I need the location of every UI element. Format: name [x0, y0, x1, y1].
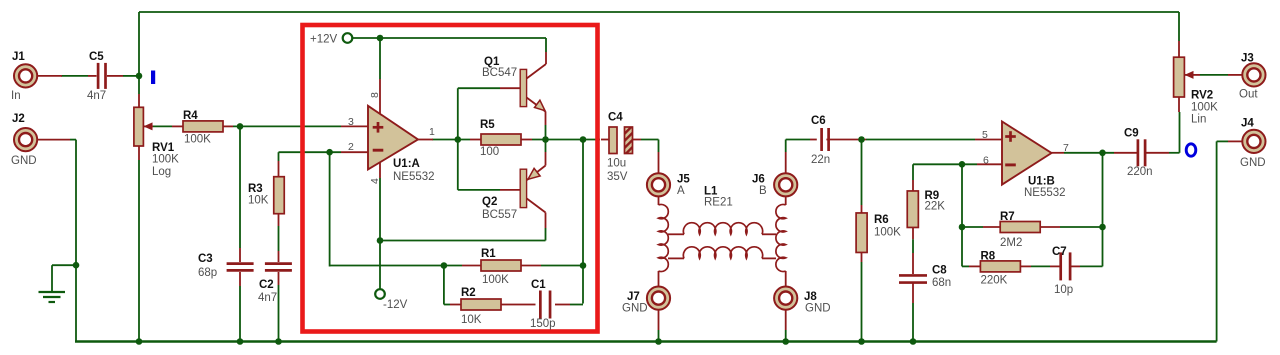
svg-text:100K: 100K — [152, 154, 179, 166]
svg-text:22K: 22K — [925, 201, 946, 213]
svg-text:68n: 68n — [932, 277, 951, 289]
svg-text:C8: C8 — [932, 265, 947, 277]
svg-text:100K: 100K — [874, 227, 901, 239]
svg-text:C7: C7 — [1052, 246, 1067, 258]
svg-text:J2: J2 — [12, 113, 25, 125]
svg-text:Lin: Lin — [1191, 114, 1206, 126]
svg-text:10p: 10p — [1054, 284, 1073, 296]
svg-text:100K: 100K — [1191, 102, 1218, 114]
svg-text:R8: R8 — [981, 251, 996, 263]
svg-text:J7: J7 — [627, 291, 640, 303]
svg-text:4: 4 — [369, 178, 381, 184]
svg-text:C3: C3 — [198, 253, 213, 265]
svg-text:C4: C4 — [608, 112, 623, 124]
svg-text:R5: R5 — [480, 119, 495, 131]
svg-text:220n: 220n — [1127, 166, 1153, 178]
svg-text:R1: R1 — [481, 248, 496, 260]
svg-text:220K: 220K — [981, 275, 1008, 287]
svg-text:U1:B: U1:B — [1028, 176, 1055, 188]
svg-text:+12V: +12V — [310, 34, 338, 46]
svg-text:BC547: BC547 — [482, 67, 517, 79]
svg-text:-12V: -12V — [383, 299, 408, 311]
svg-text:10K: 10K — [248, 195, 269, 207]
svg-text:R3: R3 — [248, 183, 263, 195]
svg-text:GND: GND — [1240, 157, 1266, 169]
svg-text:J6: J6 — [752, 174, 765, 186]
svg-text:10K: 10K — [461, 314, 482, 326]
svg-text:B: B — [759, 185, 767, 197]
svg-text:C5: C5 — [89, 51, 104, 63]
svg-text:1: 1 — [429, 126, 435, 138]
svg-text:RV2: RV2 — [1191, 90, 1213, 102]
svg-text:100K: 100K — [482, 274, 509, 286]
svg-text:C6: C6 — [811, 115, 826, 127]
svg-text:C9: C9 — [1124, 128, 1139, 140]
svg-text:R7: R7 — [1000, 211, 1015, 223]
svg-text:Q2: Q2 — [482, 196, 497, 208]
svg-text:RE21: RE21 — [704, 197, 733, 209]
svg-text:68p: 68p — [198, 267, 217, 279]
svg-text:5: 5 — [982, 129, 988, 141]
svg-text:35V: 35V — [607, 171, 628, 183]
svg-text:U1:A: U1:A — [393, 158, 420, 170]
svg-text:A: A — [677, 185, 685, 197]
svg-text:150p: 150p — [530, 318, 556, 330]
svg-text:3: 3 — [348, 116, 354, 128]
svg-text:4n7: 4n7 — [258, 292, 277, 304]
svg-text:RV1: RV1 — [152, 142, 175, 154]
svg-text:NE5532: NE5532 — [393, 171, 435, 183]
svg-text:100K: 100K — [184, 134, 211, 146]
svg-text:7: 7 — [1063, 142, 1069, 154]
svg-text:GND: GND — [11, 155, 37, 167]
svg-text:J1: J1 — [12, 51, 25, 63]
svg-text:Log: Log — [152, 166, 171, 178]
svg-text:R2: R2 — [461, 287, 476, 299]
svg-text:C1: C1 — [531, 279, 546, 291]
svg-text:100: 100 — [480, 146, 499, 158]
svg-text:GND: GND — [622, 303, 648, 315]
svg-text:J3: J3 — [1241, 53, 1254, 65]
svg-text:BC557: BC557 — [482, 209, 517, 221]
svg-text:NE5532: NE5532 — [1024, 187, 1066, 199]
svg-text:In: In — [11, 90, 21, 102]
svg-text:J8: J8 — [804, 291, 817, 303]
svg-text:Out: Out — [1239, 89, 1258, 101]
svg-text:R6: R6 — [874, 214, 889, 226]
svg-text:J5: J5 — [677, 174, 690, 186]
svg-text:C2: C2 — [259, 279, 274, 291]
svg-text:10u: 10u — [607, 158, 626, 170]
svg-text:R4: R4 — [183, 110, 198, 122]
svg-text:2: 2 — [348, 141, 354, 153]
svg-text:4n7: 4n7 — [87, 90, 106, 102]
svg-text:2M2: 2M2 — [1000, 237, 1022, 249]
svg-text:6: 6 — [983, 154, 989, 166]
svg-text:8: 8 — [369, 92, 381, 98]
svg-text:GND: GND — [805, 303, 831, 315]
svg-text:J4: J4 — [1241, 118, 1254, 130]
svg-text:22n: 22n — [811, 154, 830, 166]
